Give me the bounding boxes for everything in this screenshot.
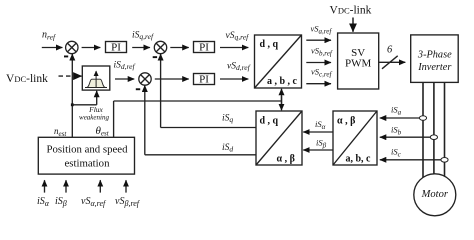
junction dot n_est branch (71, 103, 74, 106)
bus width slash (382, 56, 398, 69)
PI controller PI1 (106, 42, 127, 54)
wire junction2 to PI2 (170, 47, 188, 49)
wire n_ref input arrow (42, 47, 63, 49)
wire junction3 to PI3 (155, 78, 189, 80)
svg-text:3-Phase: 3-Phase (417, 50, 452, 61)
transform block abc to alpha-beta (333, 111, 377, 165)
svg-text:iSa: iSa (391, 105, 402, 117)
wire SV PWM to inverter (379, 61, 406, 63)
svg-text:d , q: d , q (260, 116, 279, 127)
svg-text:vSc,ref: vSc,ref (311, 67, 332, 79)
svg-text:vSd,ref: vSd,ref (227, 62, 251, 73)
svg-text:iSq,ref: iSq,ref (132, 31, 154, 42)
svg-text:PI: PI (111, 42, 121, 54)
wire input arrow iSalpha to estimator (44, 180, 46, 192)
svg-text:Inverter: Inverter (417, 62, 452, 73)
PI controller PI3 (194, 74, 215, 86)
svg-text:VDC-link: VDC-link (6, 73, 48, 85)
wire input arrow vSbeta,ref to estimator (125, 180, 127, 192)
svg-text:iSq: iSq (222, 113, 233, 124)
PI controller PI2 (194, 42, 215, 54)
wire iSc tap (380, 159, 441, 161)
svg-text:iSc: iSc (391, 147, 402, 159)
current sensor b (430, 135, 437, 140)
wire iSalpha between blocks (303, 131, 333, 133)
wire motor phase line b (433, 82, 435, 192)
wire iSq feedback horizontal (161, 127, 257, 129)
wire motor phase line c (444, 82, 446, 186)
wire vSa,ref (306, 39, 331, 41)
minus sign at junction 2 (153, 56, 157, 58)
wire motor phase line a (422, 82, 424, 185)
svg-text:iSb: iSb (391, 125, 402, 137)
svg-text:vSb,ref: vSb,ref (311, 46, 333, 58)
svg-text:PI: PI (199, 74, 209, 86)
wire input arrow iSbeta to estimator (65, 180, 67, 192)
summing junction 2 (154, 41, 166, 53)
wire iSb tap (380, 136, 431, 138)
wire flux weakening to junction 3 (115, 78, 134, 80)
svg-text:iSβ: iSβ (55, 196, 67, 208)
position and speed estimation block (38, 137, 134, 174)
wire iSq feedback vertical to junction 2 (160, 54, 162, 128)
wire PI3 to dq-abc block (220, 78, 248, 80)
svg-text:6: 6 (387, 45, 393, 56)
wire vSb,ref (306, 62, 331, 64)
wire dashed VDC-link to flux weakening (59, 75, 75, 77)
svg-text:nref: nref (42, 29, 56, 41)
svg-text:iSα: iSα (37, 196, 50, 208)
svg-text:VDC-link: VDC-link (330, 5, 372, 17)
wire iSbeta between blocks (303, 149, 333, 151)
minus sign at junction 1 (64, 56, 68, 58)
summing junction 3 (139, 73, 151, 85)
svg-text:iSβ: iSβ (316, 138, 327, 150)
svg-text:α , β: α , β (277, 154, 295, 165)
svg-text:d , q: d , q (260, 39, 279, 50)
flux weakening block (82, 66, 110, 90)
svg-text:nest: nest (54, 126, 67, 138)
svg-text:iSd,ref: iSd,ref (114, 61, 136, 72)
svg-text:estimation: estimation (65, 157, 111, 169)
transform block alpha-beta to dq (256, 111, 302, 165)
svg-text:iSd: iSd (222, 143, 233, 154)
wire theta_est vertical (113, 101, 115, 137)
svg-text:a , b , c: a , b , c (267, 76, 298, 87)
3-phase inverter block (411, 35, 459, 83)
svg-text:weakening: weakening (79, 114, 109, 122)
motor (414, 174, 456, 216)
svg-text:PI: PI (199, 42, 209, 54)
svg-text:vSa,ref: vSa,ref (311, 24, 333, 36)
current sensor a (419, 116, 426, 121)
svg-text:vSα,ref: vSα,ref (81, 196, 107, 208)
wire input arrow vSalpha,ref to estimator (99, 180, 101, 192)
transform block dq to abc (255, 35, 302, 88)
svg-text:PWM: PWM (345, 58, 372, 70)
svg-text:a, b, c: a, b, c (346, 154, 372, 165)
minus sign at junction 3 (136, 88, 140, 90)
svg-text:iSα: iSα (315, 119, 326, 131)
summing junction 1 (66, 41, 78, 53)
wire PI1 to junction 2 (132, 47, 150, 49)
svg-text:vSβ,ref: vSβ,ref (115, 196, 141, 208)
svg-text:Position and speed: Position and speed (47, 144, 129, 156)
svg-text:θest: θest (96, 125, 110, 138)
wire theta_est horizontal (114, 100, 282, 102)
wire iSd feedback horizontal (145, 154, 256, 156)
svg-text:vSq,ref: vSq,ref (226, 31, 250, 42)
current sensor c (441, 158, 448, 163)
wire VDC-link down arrow to SV PWM (352, 18, 354, 32)
wire iSd feedback vertical to junction 3 (144, 86, 146, 155)
svg-text:Motor: Motor (421, 189, 449, 200)
wire n_est feedback vertical to junction 1 (71, 54, 73, 137)
SV PWM block (338, 33, 379, 89)
svg-text:Flux: Flux (88, 105, 103, 114)
svg-text:α , β: α , β (337, 116, 355, 127)
wire junction1 to PI1 (82, 47, 101, 49)
wire iSa tap (380, 117, 420, 119)
wire n_est branch to flux weakening (72, 104, 96, 106)
wire PI2 to dq-abc block (220, 47, 248, 49)
wire vSc,ref (306, 83, 331, 85)
wire theta_est down arrow to alpha-beta-dq block (281, 96, 283, 110)
wire theta_est up arrow to dq-abc block (281, 89, 283, 106)
